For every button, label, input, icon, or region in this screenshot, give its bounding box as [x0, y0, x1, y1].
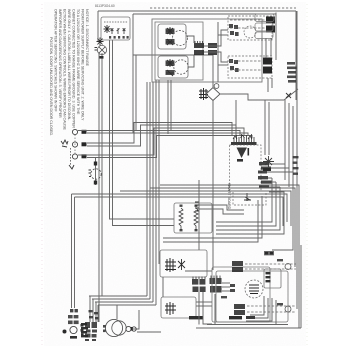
center vertical bundle: [147, 80, 199, 305]
wire fan out a: [269, 163, 285, 165]
wire nested corner b: [246, 298, 272, 321]
P2 teeth: [211, 276, 220, 279]
wire bottom link: [196, 327, 212, 329]
relay dashed box: [233, 191, 266, 205]
motor bits: [103, 325, 106, 332]
wire lock switch diag: [284, 89, 298, 100]
E1 terminal: [266, 17, 275, 24]
wire: [288, 103, 290, 187]
lamp terminal top: [94, 162, 97, 166]
oven control board box: [230, 145, 262, 191]
wire L2 bus b: [87, 136, 252, 158]
igniter terminals: [230, 284, 235, 292]
infinite switch SW1 contacts: [166, 27, 174, 35]
wire: [170, 80, 172, 131]
wire stair 5: [163, 196, 262, 238]
oven light contacts: [99, 47, 105, 53]
notice text block: [49, 9, 89, 136]
wire nut W2: [97, 38, 104, 46]
fan terminal: [263, 168, 271, 171]
convection motor hatch: [199, 88, 208, 100]
wire: [98, 305, 156, 322]
wire lock to right: [220, 94, 284, 100]
door switch label: [189, 316, 203, 319]
wire P2 to igniter c: [222, 290, 230, 292]
wire motor right: [131, 310, 139, 329]
connector P1 comb: [192, 279, 206, 292]
bake burner dashed b: [247, 311, 296, 313]
bottom connector comb: [85, 322, 97, 338]
wire fan out b: [271, 167, 289, 169]
bake section box: [212, 267, 270, 322]
bake burner dashed: [247, 305, 296, 307]
door switch box: [161, 297, 196, 318]
wire lamp feed: [95, 158, 97, 186]
right element group box RR/LR: [228, 56, 272, 78]
bake igniter comb: [234, 304, 245, 315]
wire L1 bus b: [87, 133, 248, 136]
broil valve circle: [285, 264, 291, 270]
connector P3 teeth: [195, 41, 203, 43]
wire: [135, 55, 137, 130]
oven control connector bar: [231, 142, 257, 145]
oven control connector comb: [234, 134, 254, 142]
SW1 contact blob: [166, 29, 175, 45]
wire nest 2: [199, 209, 244, 214]
wire: [75, 197, 284, 226]
E4 terminal: [263, 67, 272, 74]
wire L1 bus a: [78, 131, 240, 137]
wire nut W1: [104, 25, 111, 33]
terminal L2 lug: [82, 154, 87, 158]
wire N bus b: [87, 125, 236, 146]
wire bottom outer: [200, 327, 301, 329]
board output connector upper: [258, 162, 271, 174]
wire: [264, 100, 266, 155]
power cord grommet: [70, 326, 77, 333]
P1 teeth: [193, 277, 205, 280]
power terminal block circle L1: [72, 129, 77, 134]
lamp side marks: [89, 170, 92, 177]
oven control connector arrows: [233, 135, 252, 139]
power terminal block circle L2: [72, 154, 77, 159]
E3 left terminal glyphs: [229, 59, 239, 72]
infinite switch SW2 contacts: [166, 59, 174, 67]
wire: [110, 40, 175, 219]
connector P3: [194, 43, 204, 55]
SW2 contact blob: [166, 61, 175, 76]
lamp terminal bottom: [94, 181, 97, 185]
wire left drop from clock box: [97, 11, 99, 42]
svg-text:TO A 120/240V OR 120/208V 60HZ: TO A 120/240V OR 120/208V 60HZ 3-WIRE SE…: [76, 9, 80, 115]
wire labels near valves: [221, 259, 283, 305]
igniter element: [249, 285, 259, 294]
oven door motor: [105, 319, 122, 336]
bottom mid label: [229, 316, 242, 319]
spark module coil 1: [179, 208, 183, 230]
broil igniter comb: [232, 261, 243, 272]
motor capacitor circles: [126, 326, 131, 331]
fold mark right: [306, 4, 308, 346]
wire labels right stack: [287, 62, 297, 83]
wire: [72, 194, 288, 222]
wire P2 to igniter b: [222, 286, 230, 288]
ground strain relief: [61, 140, 68, 147]
svg-text:IMPROPER AND DANGEROUS OPERATI: IMPROPER AND DANGEROUS OPERATION. 5. VER…: [58, 9, 62, 118]
spark module coil 2: [194, 208, 198, 230]
surface element E3: [230, 60, 262, 62]
wire: [284, 99, 286, 180]
E1 left terminal glyphs: [229, 24, 239, 36]
lock cam circle: [214, 84, 219, 89]
wire nested corner a: [246, 298, 268, 318]
wire: [158, 80, 160, 264]
E3 terminal: [263, 58, 272, 65]
bottom mid label b: [246, 316, 255, 319]
oven section bus: [72, 178, 300, 328]
capacitor dot: [131, 327, 133, 331]
wire: [132, 14, 134, 133]
right vertical bundle: [265, 11, 302, 328]
wire L2 bus a: [78, 128, 244, 155]
svg-text:ECTION WHEN SERVICING CONTROLS: ECTION WHEN SERVICING CONTROLS. WIRING E…: [63, 9, 67, 131]
clock pin 1: [111, 28, 114, 34]
bake valve circle: [285, 306, 291, 312]
wire door box top: [71, 194, 73, 308]
element row boxes right: [255, 14, 274, 22]
latch switch arm: [178, 259, 185, 270]
surface element E2: [230, 27, 265, 29]
coil terminals: [180, 205, 198, 232]
fold mark left: [41, 4, 43, 346]
wire top bus 2: [133, 13, 276, 15]
wire nested corner c: [222, 300, 276, 325]
wire: [150, 188, 295, 267]
svg-text:OPERATION AFTER SERVICING. SWI: OPERATION AFTER SERVICING. SWITCHES SHOW…: [54, 9, 58, 112]
door switch contacts: [165, 302, 176, 315]
wire: [89, 295, 147, 297]
E2 terminal: [266, 26, 275, 33]
broil burner dashed b: [245, 268, 296, 270]
wire latch to door switch: [162, 277, 164, 297]
wire fan out f: [269, 186, 280, 188]
bake outer box: [216, 271, 288, 322]
wire clock box feeds: [98, 53, 100, 322]
wire: [149, 82, 151, 299]
board output connector lower: [258, 176, 272, 188]
power cord label row1: [68, 315, 78, 318]
surface element E1: [230, 19, 265, 21]
wire: [120, 191, 291, 226]
surface unit section outer box: [152, 19, 262, 82]
infinite switch SW1 contacts lower: [166, 39, 174, 45]
spark module box: [174, 203, 212, 233]
oven light OL1: [97, 45, 106, 54]
infinite switch SW2 contacts lower: [166, 70, 174, 76]
wire motor feed: [116, 305, 118, 319]
power cord terminal lugs: [70, 309, 78, 312]
wire stair 6: [163, 200, 258, 242]
power terminal block circle N: [72, 142, 77, 147]
wire P2 to igniter a: [222, 282, 230, 284]
wire label ticks: [89, 310, 99, 319]
wire door box top b: [74, 197, 76, 308]
svg-text:FROM POWER SUPPLY BEFORE SERVI: FROM POWER SUPPLY BEFORE SERVICING UNIT.…: [81, 9, 85, 121]
latch switch contacts: [165, 258, 176, 272]
wire: [296, 11, 298, 309]
wire: [152, 82, 154, 302]
svg-text:WIRE ONLY. 4. CAUTION: LABEL A: WIRE ONLY. 4. CAUTION: LABEL ALL WIRES P…: [67, 9, 71, 121]
wire door switch to bake box b: [196, 305, 212, 307]
SW2 cam circle: [174, 60, 188, 74]
power cord label row2: [68, 321, 79, 325]
wire element drops: [266, 13, 276, 93]
wire P1 drop b: [203, 292, 212, 324]
infinite switch section inner box: [155, 22, 203, 80]
wire: [268, 102, 270, 155]
latch switch box: [160, 250, 207, 277]
wire: [146, 82, 148, 296]
SW1 cam circle: [173, 31, 188, 46]
ground wire dashed: [70, 148, 72, 166]
wire stair 4: [216, 192, 284, 234]
connector P4: [208, 43, 217, 55]
relay contacts: [244, 193, 251, 201]
door lock motor diamond: [206, 88, 220, 101]
control board pads: [237, 159, 243, 162]
svg-text:8113P3O4-60: 8113P3O4-60: [95, 4, 115, 8]
terminal L1 lug: [82, 130, 87, 134]
infinite switch SW2 box: [158, 56, 188, 78]
bake feed lugs: [265, 252, 269, 255]
wire right main drop: [295, 11, 297, 100]
E2 limiter circle: [244, 26, 256, 38]
broil burner dashed: [245, 263, 296, 265]
wire: [90, 296, 94, 322]
right element group box RF/LF: [228, 16, 272, 40]
scan noise texture: [44, 2, 306, 346]
bottom right small box: [264, 269, 281, 288]
wire stair 3: [216, 187, 280, 230]
svg-text:SMART BOARD: SMART BOARD: [227, 183, 231, 210]
clock pin 3: [123, 28, 126, 34]
wire bottom run: [137, 331, 161, 333]
connector P2 comb: [210, 278, 222, 293]
wire: [101, 53, 103, 296]
cooling fan motor: [263, 156, 274, 167]
board pin comb left: [195, 202, 199, 211]
oven lamp: [91, 169, 101, 179]
comb side bits: [81, 324, 84, 336]
wire lock drop: [212, 101, 214, 271]
grommet screw: [63, 330, 67, 334]
oven clock / timer box: [101, 17, 130, 40]
wire stair 2: [216, 182, 276, 226]
wire fan out e: [272, 181, 276, 183]
wire: [167, 80, 169, 134]
comb lower bits: [85, 339, 96, 341]
wire: [235, 100, 237, 130]
wire: [272, 106, 293, 250]
wire: [198, 180, 200, 250]
wire nested corner d: [250, 296, 264, 315]
wire bottom inner: [207, 324, 288, 326]
wire fan out d: [268, 177, 272, 179]
oven door motor inner: [112, 321, 126, 335]
terminal tick: [100, 56, 104, 59]
wire fan out c: [267, 171, 293, 173]
selector side marks: [95, 48, 98, 51]
wire top bus 1: [98, 10, 296, 12]
oven igniter circle: [245, 280, 263, 298]
wire top bus dashed: [150, 7, 296, 9]
lower wire fan: [89, 296, 301, 332]
wire P2 drop: [214, 294, 216, 324]
svg-text:CABINET CONNECTED TO RANGE FRA: CABINET CONNECTED TO RANGE FRAME GROUND.…: [72, 9, 76, 128]
wire: [113, 40, 175, 226]
surface element E4: [230, 69, 262, 71]
wire stair 1: [216, 178, 272, 222]
wire: [155, 80, 157, 305]
wire number labels right: [293, 156, 299, 175]
clock terminal dashed strip: [104, 21, 128, 23]
terminal N lug: [82, 142, 87, 146]
small box labels: [266, 272, 271, 282]
ground arrow: [69, 165, 74, 169]
clock pin dots: [109, 36, 129, 39]
clock pin 2: [117, 28, 120, 34]
wire into bake top: [185, 270, 212, 272]
wire door switch to bake box a: [196, 301, 212, 303]
svg-text:POSITION. DOOR UNLOCKED AND OV: POSITION. DOOR UNLOCKED AND OVEN DOOR CL…: [49, 37, 53, 136]
wire: [95, 302, 97, 322]
wire P1 drop: [198, 292, 200, 325]
infinite switch SW1 box: [158, 24, 186, 49]
wire N bus a: [87, 123, 232, 144]
lock switch X: [286, 93, 291, 98]
cord bits below: [70, 336, 77, 339]
wire branch to lock motor: [133, 55, 213, 87]
svg-text:NOTICE: 1. DISCONNECT RANGE: NOTICE: 1. DISCONNECT RANGE: [85, 9, 89, 67]
wire: [300, 245, 302, 328]
cord text right: [81, 323, 88, 337]
control board triangle: [237, 148, 248, 159]
wire: [93, 299, 97, 322]
wire: [95, 301, 153, 303]
wire nest 1: [199, 205, 244, 210]
wire switch to elements: [186, 22, 228, 82]
control board tick: [248, 148, 250, 156]
wire: [160, 185, 299, 328]
terminal block dashed body: [74, 135, 76, 155]
wire: [92, 298, 150, 300]
